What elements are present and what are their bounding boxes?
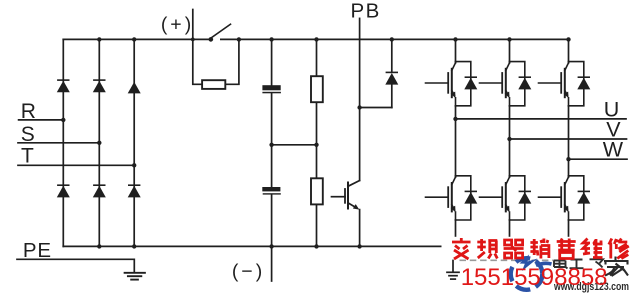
output line W wire [569,158,628,160]
node midpoint junctions [269,143,273,147]
diode D4 (lower, phase R) [57,184,70,197]
switch S1 blade [211,24,230,38]
svg-text:(+): (+) [161,14,194,36]
switch pivot junction [209,37,214,42]
(-) terminal lead [271,246,273,281]
balancing resistor branch wire [316,39,318,246]
svg-text:W: W [603,138,624,162]
char 维 [583,239,603,259]
precharge bypass loop right wire [225,39,239,84]
char 变 [452,238,471,259]
DC bus earth stub wire [452,246,454,272]
node S junction [97,141,101,145]
node R junction [61,118,65,122]
phase U upper column wire [455,39,457,246]
svg-text:15515598858: 15515598858 [461,264,608,291]
DC bus capacitor branch wire [271,39,273,246]
diode D1 (upper, phase R) [57,79,70,92]
ground (DC bus earth symbol) [447,272,459,279]
midpoint link wire [272,144,317,146]
resistor R1 (precharge) [202,80,225,89]
PE line wire [17,259,134,272]
svg-text:PB: PB [351,0,381,23]
char 器 [504,240,524,258]
watermark char (gray) [604,257,629,277]
white backing of stamped red text line 1 [442,237,635,260]
IGBT module Q5 (W upper) [539,62,591,106]
capacitor C2 [262,187,281,195]
svg-text:PE: PE [23,239,52,262]
char 修 [609,239,629,259]
phase W upper column wire [568,39,570,246]
input line T wire [18,164,134,166]
IGBT module Q2 (U lower) [426,176,478,220]
node W junction [566,157,570,161]
brake chopper collector wire [359,108,361,181]
rectifier column 1 wire [62,39,64,246]
IGBT module Q1 (U upper) [426,62,478,106]
output line U wire [456,118,627,120]
capacitor C1 [262,85,281,93]
watermark logo (blue) [511,255,552,290]
diode D6 (lower, phase T) [128,184,141,197]
PB terminal lead wire [359,18,361,107]
brake emitter wire [359,210,361,247]
svg-text:R: R [21,100,36,123]
(+) terminal lead [192,10,194,40]
PB node link wire [360,107,392,109]
diode D5 (lower, phase S) [93,184,106,197]
char 售 [557,239,576,259]
rectifier column 2 wire [98,39,100,246]
negative DC bus (bottom rail) [63,245,568,247]
watermark dashed row (gray) [460,259,557,261]
node V junction [507,137,511,141]
resistor R3 (lower balancing) [311,178,323,204]
diode D2 (upper, phase S) [93,79,106,92]
resistor R2 (upper balancing) [311,76,323,102]
svg-text:(−): (−) [232,261,265,283]
phase V upper column wire [509,39,511,246]
node PB junction [357,105,361,109]
IGBT module Q3 (V upper) [480,62,532,106]
watermark text fragments (gray) [554,259,603,269]
IGBT module Q4 (V lower) [480,176,532,220]
ground (PE earth symbol) [125,273,145,280]
precharge bypass loop left wire [193,39,202,84]
input line R wire [19,119,64,121]
top bus junctions [97,37,101,41]
bottom bus junctions [97,244,101,248]
positive DC bus (top rail, with switch gap) [63,38,568,40]
diode D7 (brake freewheel) [385,72,398,85]
char 频 [477,239,497,259]
rectifier column 3 wire [133,39,135,246]
input line S wire [18,142,99,144]
diode D3 (upper, phase T, no bar) [128,82,141,94]
IGBT module Q6 (W lower) [539,176,591,220]
svg-text:S: S [21,123,35,146]
brake diode branch wire [391,39,393,107]
transistor Q7 (brake IGBT) [332,181,360,210]
node U junction [453,117,457,121]
svg-text:T: T [21,144,34,167]
char 销 [530,239,549,259]
red overlay text line 1: 变频器销售维修 [452,238,629,259]
output line V wire [510,138,627,140]
node T junction [132,163,136,167]
